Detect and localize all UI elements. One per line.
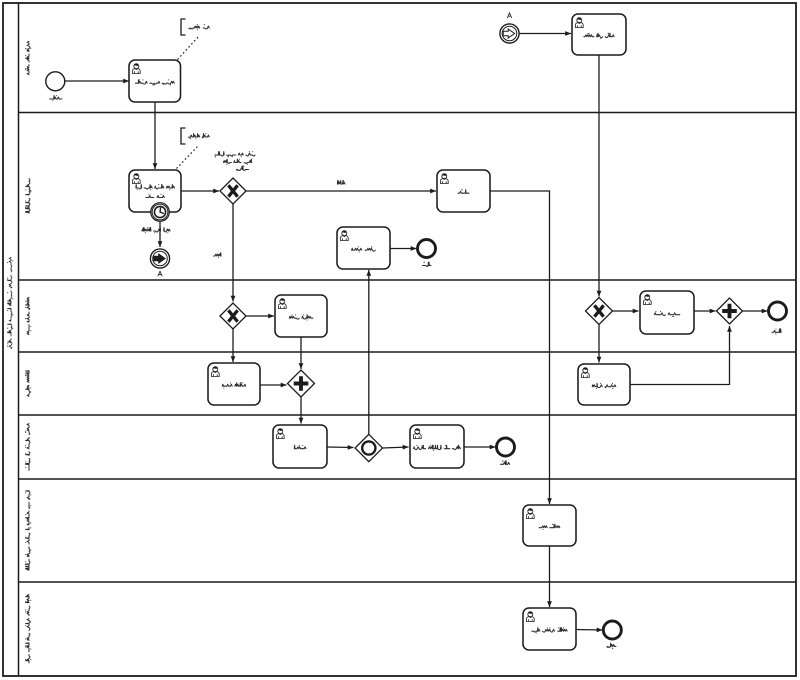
gateway OR inclusive: [355, 434, 382, 461]
flow ettela4->plus1: [260, 383, 287, 388]
flow darj->end5: [464, 445, 496, 450]
lane 7 label: [25, 595, 31, 664]
start label: [50, 95, 62, 101]
end label lane2: [423, 262, 431, 267]
flow A->task adam bazkhord: [519, 31, 571, 36]
pool label (rotated): [7, 258, 13, 349]
end label lane5: [501, 460, 510, 464]
flow task2->X1: [181, 189, 219, 194]
lane divider 1: [19, 112, 797, 114]
flow ettela3->plus1: [299, 337, 304, 369]
task: anjam eqdamat lazem: [523, 608, 576, 650]
gateway plus1 parallel: [288, 370, 315, 397]
task: barresi: [273, 425, 327, 468]
flow ettela4r->plus2 (up): [630, 326, 732, 385]
lane 2 label: [25, 179, 31, 214]
gateway X3 exclusive: [586, 298, 613, 325]
flow takmil->anjam: [547, 546, 552, 607]
annotation1 bracket: [181, 19, 209, 35]
flow plus1->barresi: [299, 397, 304, 424]
flow plus2->end3: [743, 309, 768, 314]
task: ettela resani lane2: [337, 227, 390, 269]
flow X3->ettela3r: [613, 309, 639, 314]
lane divider 6: [19, 581, 797, 583]
end event lane3: [769, 302, 787, 320]
label bali: [337, 180, 345, 184]
flow adam->X3: [597, 55, 602, 297]
gateway plus2 parallel: [717, 298, 743, 324]
end event lane2: [418, 240, 436, 258]
flow timer->link throw: [158, 222, 163, 247]
end event lane5: [497, 438, 515, 456]
lane 5 label: [25, 424, 30, 471]
link catch event A: [500, 24, 519, 43]
gateway X2 exclusive: [220, 303, 246, 329]
flow X3->ettela4r (down): [597, 325, 602, 363]
end event lane7: [603, 621, 621, 639]
flow start->task1: [65, 79, 129, 84]
flow OR->darj: [383, 445, 409, 450]
timer boundary event: [151, 203, 170, 222]
lane 6 label: [25, 491, 31, 571]
task: ettela resani lane3: [275, 295, 327, 337]
end label lane3: [772, 328, 781, 334]
lane divider 3: [19, 351, 797, 353]
flow OR->ettela2 (up): [366, 270, 371, 435]
end label lane7: [607, 643, 616, 649]
task: ettela resani lane4: [208, 363, 260, 405]
assoc dotted 1: [178, 36, 200, 60]
flow ettela2->end: [390, 246, 417, 251]
lane divider 4: [19, 414, 797, 416]
lane 3 label: [25, 297, 31, 334]
flow ettela3r->plus2: [694, 309, 716, 314]
label kheyr: [214, 253, 221, 259]
task: darj dar parvande: [410, 425, 464, 468]
label A bottom: [158, 271, 162, 276]
annotation2 bracket: [181, 128, 209, 144]
flow anjam->end7: [576, 628, 603, 633]
task: emza: [437, 170, 490, 212]
flow X1->X2 (no): [231, 204, 236, 302]
start event: [46, 72, 65, 91]
gateway X1 exclusive: [220, 178, 246, 204]
flow X2->ettela3: [246, 314, 274, 319]
task: ettela resani lane4 right: [578, 364, 630, 405]
flow X2->ettela4 (down): [231, 329, 236, 362]
lane divider 5: [19, 478, 797, 480]
task: takmil sotun emtiazat: [129, 60, 181, 102]
lane divider 2: [19, 279, 797, 281]
pool label divider: [18, 3, 20, 676]
task: ettela resani lane3 right: [640, 291, 694, 334]
flow X1->emza (yes): [246, 189, 436, 194]
flow emza->takmil form: [490, 191, 552, 504]
gateway X1 question text: [215, 151, 255, 170]
link throw event A: [150, 249, 169, 268]
assoc dotted 2: [177, 145, 200, 169]
task: ezhare nazar katbi: [129, 170, 181, 212]
task: takmil form: [523, 505, 576, 546]
task: adam baz khord: [572, 14, 626, 55]
label A top: [507, 13, 511, 18]
timer label: [142, 227, 170, 233]
flow barresi->OR: [327, 445, 354, 450]
flow task1->task2: [153, 102, 158, 169]
lane 1 label: [25, 41, 31, 74]
lane 4 label: [25, 371, 31, 397]
